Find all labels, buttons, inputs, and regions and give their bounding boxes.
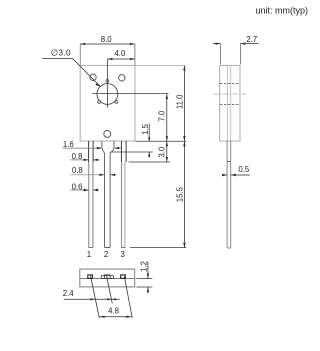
lead 2 tip (105, 247, 111, 249)
leader line lead2 (107, 276, 113, 304)
svg-text:2.4: 2.4 (63, 289, 75, 298)
side view hole centerline (214, 93, 247, 95)
svg-text:1: 1 (87, 250, 91, 259)
bottom view lead 1 square (88, 275, 93, 279)
leader line lead3 (124, 276, 132, 318)
dimension 8.0 (80, 43, 135, 45)
side view lead (227, 141, 231, 248)
hole big (mounting hole) (97, 84, 118, 105)
dimension 11.0 (183, 66, 185, 142)
bottom view lead 3 square (121, 275, 126, 279)
extension lines 1.2 (137, 279, 153, 288)
lead 3 tip (121, 247, 125, 249)
lead 3 upper dark edges (121, 141, 126, 162)
svg-text:0.5: 0.5 (238, 165, 250, 174)
side view body outline (220, 66, 240, 142)
hole centerline horizontal (92, 93, 168, 95)
svg-text:2.7: 2.7 (246, 35, 257, 44)
svg-text:∅3.0: ∅3.0 (51, 47, 71, 57)
svg-text:3.0: 3.0 (157, 146, 166, 158)
extension line 3.0 (129, 161, 170, 163)
side view internal lead lines (227, 66, 230, 141)
front view body outline (80, 66, 135, 142)
svg-text:15.5: 15.5 (176, 186, 185, 202)
dimension 3.0 (166, 141, 168, 162)
svg-text:0.8: 0.8 (72, 166, 83, 175)
bottom view outline (80, 269, 135, 287)
leader line lead1 (91, 276, 100, 319)
hole top-left small (90, 74, 96, 80)
hole bottom small (104, 130, 111, 137)
bottom view lead 2 square (105, 275, 111, 279)
svg-text:unit: mm(typ): unit: mm(typ) (255, 6, 308, 16)
dot mark lower-left (98, 101, 101, 104)
side view hidden hole lines (220, 84, 240, 105)
hole centerline vertical (106, 59, 108, 108)
bottom view lead 2 wide flat (101, 276, 113, 279)
svg-text:7.0: 7.0 (158, 110, 167, 122)
svg-text:2: 2 (104, 250, 108, 259)
lead 3 (right) gray lower part (122, 162, 125, 247)
extension line at lead tips for 15.5 (130, 247, 186, 249)
svg-text:3: 3 (121, 250, 125, 259)
extension line 1.5 (111, 151, 153, 153)
extension lines 8.0 (80, 44, 135, 65)
svg-text:8.0: 8.0 (101, 35, 113, 44)
svg-text:4.0: 4.0 (114, 49, 126, 58)
svg-text:11.0: 11.0 (176, 94, 185, 109)
dot mark top (106, 80, 109, 83)
hole top-right small (119, 75, 125, 81)
bottom view mid line (80, 278, 135, 280)
side view lead step tick (227, 160, 231, 162)
extension line bottom (body bottom to 15.5) (136, 140, 187, 142)
dimension 4.0 (107, 58, 134, 60)
lead 2 (middle) outline (102, 141, 114, 247)
dimension 7.0 (166, 94, 168, 141)
lead 1 tip (88, 247, 93, 249)
dot mark lower-right (115, 101, 118, 104)
svg-text:1.5: 1.5 (141, 123, 150, 135)
lead 1 (left) gray lower part (89, 162, 93, 247)
svg-text:4.8: 4.8 (108, 307, 119, 316)
extension lines 2.7 (221, 44, 241, 65)
svg-text:1.2: 1.2 (139, 261, 148, 272)
extension line top (body top to 11.0) (135, 64, 186, 66)
lead 1 upper dark edges (89, 141, 94, 162)
dimension 1.2 (147, 262, 149, 294)
dimension 1.5 (148, 124, 150, 158)
dimension 15.5 (183, 141, 185, 247)
